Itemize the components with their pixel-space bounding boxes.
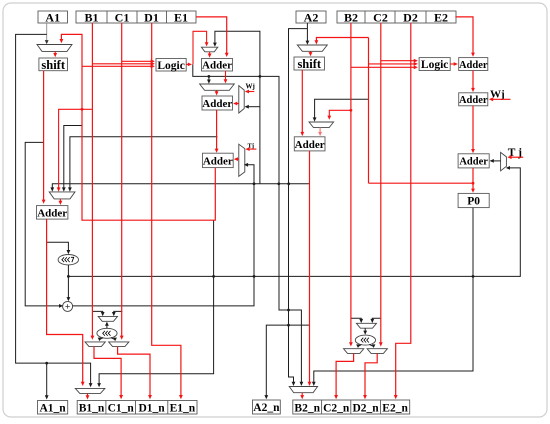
svg-text:A2: A2 [304, 10, 319, 24]
wire Logic right output to adder U5 [450, 62, 458, 66]
wire mux M17 to B2_n [300, 393, 304, 400]
svg-text:A1: A1 [45, 10, 60, 24]
svg-text:Wj: Wj [246, 83, 255, 91]
svg-text:C1: C1 [115, 10, 130, 24]
svg-text:C2: C2 [373, 10, 388, 24]
wire mux M3 to adder U2 [215, 90, 219, 95]
rotator <<< ellipse (right cluster) [355, 335, 375, 345]
svg-text:Adder: Adder [203, 155, 233, 167]
wire rotator <<< to mux M16 [369, 344, 375, 348]
wire mux M2 to adder U1 [208, 52, 212, 58]
wire D1 column to E1_n [152, 23, 183, 399]
adder U5 (right top) [459, 58, 488, 71]
block P0 [458, 193, 489, 207]
svg-text:Adder: Adder [295, 139, 325, 151]
svg-text:D1: D1 [144, 10, 159, 24]
svg-text:A1_n: A1_n [39, 402, 66, 414]
label Tj (right) [508, 147, 522, 159]
wire Wj stub (right) [489, 97, 511, 101]
wire adder U2 output to adder U3 [215, 110, 219, 153]
adder U3 (left Tj) [203, 153, 234, 167]
svg-text:Logic: Logic [421, 59, 448, 71]
wire xor output to Tj mux M5 [73, 163, 256, 306]
wire B1 column (to Logic and mux M8) [91, 23, 155, 340]
mux M9 (lower left b) [109, 342, 129, 347]
wire E1 to adder U1 [196, 17, 229, 57]
wire mux M10 to B1_n [86, 393, 90, 399]
svg-text:B2: B2 [344, 10, 358, 24]
mux M16 (lower right b) [367, 349, 387, 354]
wire P0 output (to mux M17 and net) [312, 208, 473, 386]
mux M12 (mid right) [309, 122, 334, 128]
svg-text:E1_n: E1_n [170, 403, 196, 415]
register A1_n [38, 401, 68, 415]
wire tap to mux M10 input 3 [97, 220, 215, 387]
wire A2_n feed tap [264, 325, 309, 399]
wire shift tap rail to xor [25, 142, 63, 307]
wire B2 column (to Logic, mux M12 and mux M15) [327, 23, 418, 347]
wire taps into mux M14 [351, 318, 381, 323]
mux M4 (Wj select, vertical) [239, 86, 244, 113]
wire Logic output (to adder path and mux M2) [186, 31, 208, 66]
adder U1 (left top) [202, 59, 233, 72]
wire mux M8 output to C1_n [94, 347, 123, 400]
adder U6 (right Wj) [459, 93, 488, 106]
label Tj (left) [248, 143, 255, 150]
wire black into mux M2 and down to Wj mux net [213, 31, 261, 183]
wire shift output to adder U4 [42, 71, 46, 204]
block Logic (left) [156, 59, 186, 72]
register row B2 C2 D2 E2 [337, 10, 456, 24]
svg-text:shift: shift [297, 57, 321, 71]
wire A1 rail (old A to A1_n and mux M10) [16, 34, 93, 399]
mux M2 (above Adder U1) [201, 47, 217, 52]
svg-text:E2_n: E2_n [382, 402, 408, 414]
svg-text:Logic: Logic [157, 60, 184, 72]
wire Wj stub (left) [245, 90, 255, 94]
adder U8 (right Tj) [458, 154, 489, 168]
svg-text:E1: E1 [174, 10, 188, 24]
wire mux M4 to adder U2 [233, 102, 239, 106]
mux M10 (output select B1_n) [75, 388, 105, 393]
register row B1 C1 D1 E1 [76, 10, 196, 24]
svg-text:Adder: Adder [202, 60, 232, 72]
wire big mux M6 input 3 tap [62, 126, 82, 192]
wire adder U1 output to mux M3 [224, 71, 228, 83]
block shift (left) [39, 58, 68, 72]
wire C1 column (to Logic and mux M9) [120, 23, 155, 340]
mux M11 (A2 select) [297, 45, 327, 51]
mux M3 (above Adder U2) [200, 84, 235, 90]
wire tap into mux M12 (black) [313, 99, 369, 121]
wire Tj mux M13 output to adder U8 [490, 159, 501, 163]
svg-text:A2_n: A2_n [253, 402, 280, 414]
svg-text:E2: E2 [434, 10, 448, 24]
wire mux M9 output to D1_n [118, 347, 152, 400]
svg-text:C1_n: C1_n [108, 403, 135, 415]
mux M5 (Tj select, vertical) [239, 144, 245, 176]
xor gate (circle plus) [63, 301, 73, 311]
wire adder U6 output to adder U8 [471, 106, 475, 153]
adder U2 (left Wj) [202, 96, 233, 110]
register A2_n [253, 400, 281, 414]
svg-text:Adder: Adder [37, 207, 67, 219]
svg-text:B1_n: B1_n [79, 403, 105, 415]
wire feedback A2 (to mux M11, Logic right, P0) [315, 38, 475, 185]
rotator <<<7 ellipse [58, 255, 78, 265]
adder U7 (right mid) [294, 137, 325, 151]
mux M8 (lower left a) [85, 342, 105, 347]
svg-text:D2: D2 [403, 10, 418, 24]
wire A2 to mux M11 [306, 23, 310, 45]
wire rotator <<<7 input tap [47, 242, 71, 254]
wire rotator <<< to mux M7 (up arrow) [105, 322, 109, 329]
wire rotator <<< to mux M15 [356, 344, 361, 348]
svg-text:D2_n: D2_n [352, 402, 379, 414]
svg-text:D1_n: D1_n [138, 403, 165, 415]
svg-text:P0: P0 [467, 196, 480, 208]
mux M13 (Tj select right, vertical) [501, 152, 507, 170]
wire mux M11 to shift right [309, 51, 313, 56]
adder U4 (left bottom) [37, 206, 68, 220]
wire adder U5 output to adder U6 [471, 71, 475, 93]
mux M14 (upper, right cluster) [356, 323, 376, 328]
rotator <<< ellipse (left cluster) [97, 328, 117, 338]
wire feedback A (adder U3 out to mux M1, Logic, big mux M6) [57, 34, 216, 220]
wire taps into mux M7 [92, 311, 122, 316]
wire Wj mux M4 black input net (to big mux M6) [50, 105, 309, 192]
wire A2 rail (old A2 to mux M17) [287, 29, 307, 386]
label Wj (right) [490, 89, 505, 101]
block Logic (right) [419, 58, 450, 72]
wire mux M15 output to C2_n [334, 353, 353, 399]
wire mux M5 to adder U3 [234, 157, 239, 161]
wire D2 column to E2_n [394, 23, 411, 399]
wire mux M12 to adder U7 [318, 128, 322, 137]
wire mux M16 output to D2_n [363, 353, 377, 399]
wire E2 to adder U5 [455, 17, 475, 57]
register row B1_n C1_n D1_n E1_n [77, 401, 197, 415]
register row B2_n C2_n D2_n E2_n [293, 400, 410, 414]
block shift (right) [294, 57, 325, 71]
wire rotator <<< to mux M9 [111, 338, 117, 342]
mux M17 (output select B2_n) [289, 387, 317, 393]
svg-text:Adder: Adder [459, 95, 488, 106]
mux M7 (upper, left cluster) [98, 316, 117, 321]
register A1 [38, 10, 68, 24]
wire adder U4 output to mux M10 [47, 219, 85, 386]
wire mux M14 down into rotator <<< [363, 328, 367, 335]
mux M15 (lower right a) [344, 349, 364, 354]
svg-text:B1: B1 [84, 10, 98, 24]
wire rotator <<<7 output net (to xor, long net to right Tj mux M13) [67, 166, 521, 301]
wire big mux M6 to adder U4 [59, 199, 63, 205]
svg-text:Adder: Adder [202, 98, 232, 110]
wire rotator <<< to mux M8 [98, 338, 104, 342]
wire A1 to mux M1 [45, 23, 49, 44]
svg-text:B2_n: B2_n [294, 402, 320, 414]
svg-text:Adder: Adder [459, 157, 488, 168]
wire adder U7 output (to mux M17 and A2_n tap) [308, 151, 312, 386]
wire big mux M6 input 4 tap [68, 137, 218, 192]
wire Tj stub (right) [507, 155, 523, 159]
wire shift right output to adder U7 [300, 70, 304, 136]
label Wj (left) [246, 83, 255, 91]
svg-text:C2_n: C2_n [323, 402, 350, 414]
wire mux M1 to shift [53, 51, 57, 57]
svg-text:Adder: Adder [459, 60, 488, 71]
register A2 [296, 10, 326, 24]
wire adder U8 output to P0 [471, 168, 475, 193]
wire Logic output black branch (to mux M3, rail to mux M17) [193, 64, 303, 386]
svg-text:shift: shift [41, 58, 65, 72]
wire Tj stub (left) [245, 147, 256, 151]
mux M6 (4-input above Adder U4) [49, 192, 75, 199]
wire C2 column (to Logic and mux M16) [379, 23, 418, 347]
mux M1 (A1 select) [37, 45, 72, 52]
